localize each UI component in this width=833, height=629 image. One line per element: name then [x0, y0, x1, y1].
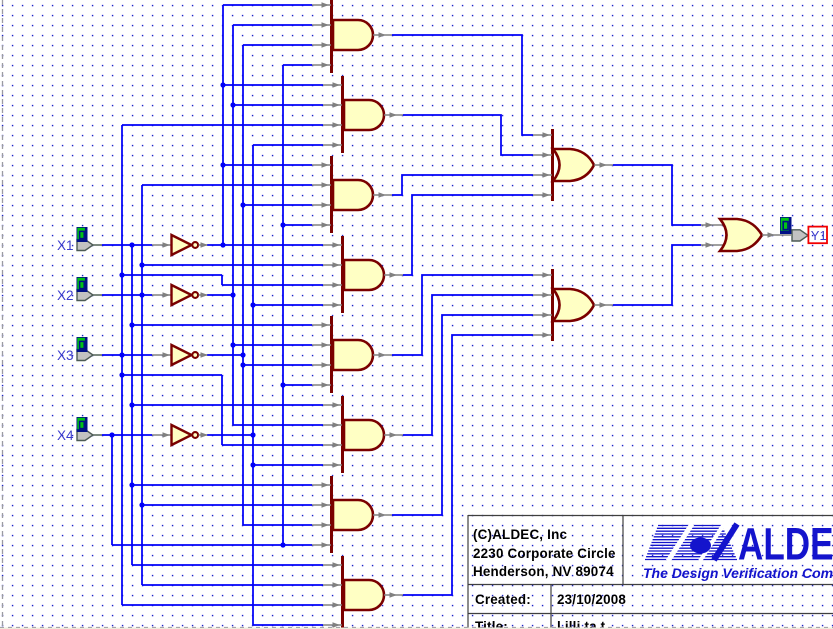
OR gate O1: [533, 129, 613, 201]
wire X2 port to inverter: [102, 294, 152, 296]
svg-text:2230 Corporate Circle: 2230 Corporate Circle: [473, 546, 616, 561]
junction (132,485): [129, 482, 134, 487]
wire NOT-X1 row to U4.in1: [207, 244, 323, 246]
wire U2 output to O1.in2: [403, 115, 533, 155]
wire X3 to U6.in3: [222, 444, 323, 446]
junction (253,465): [250, 462, 255, 467]
AND gate U7: [312, 476, 392, 553]
wire NOT-X1 to U2.in1: [223, 84, 323, 86]
wire NOT-X4 row: [207, 434, 253, 436]
wire U3 output to O1.in3: [392, 175, 533, 195]
junction (132,405): [129, 402, 134, 407]
wire X3 to U4.in3: [222, 284, 323, 286]
wire X1 to U5.in1: [132, 324, 312, 326]
wire O2 output to O3.in2: [613, 245, 701, 305]
AND gate U5: [312, 316, 392, 393]
wire net X1 column: [131, 245, 133, 565]
indicator X2 value 0: [77, 277, 88, 292]
title row: [475, 619, 606, 629]
wire X3 branch top: [122, 374, 222, 376]
wire U6 output to O2.in2: [403, 295, 533, 435]
AND gate U8: [323, 556, 403, 629]
wire net X3 jog segment: [221, 275, 223, 285]
AND gate U3: [312, 156, 392, 233]
indicator X1 value 0: [77, 227, 88, 242]
junction (142,295): [139, 292, 144, 297]
wire net X3 column: [121, 125, 123, 605]
junction (132,325): [129, 322, 134, 327]
wire X4 port to inverter: [102, 434, 152, 436]
OR gate O2: [533, 269, 613, 341]
junction (243,205): [240, 202, 245, 207]
junction (132,245): [129, 242, 134, 247]
AND gate U6: [323, 396, 403, 473]
junction (223,165): [220, 162, 225, 167]
wire NOT-X3 to U1.in3: [243, 44, 312, 46]
svg-text:The Design Verification Compan: The Design Verification Company: [643, 565, 833, 581]
svg-text:Y1: Y1: [811, 228, 827, 243]
wire NOT-X2 row: [207, 294, 233, 296]
wire NOT-X4 to U8.in4: [253, 624, 323, 626]
wire NOT-X2 to U2.in2: [233, 104, 323, 106]
input port X1: [57, 227, 102, 253]
wire NOT-X3 to U7.in3: [243, 524, 312, 526]
junction (283,225): [280, 222, 285, 227]
wire X3 to U8.in3: [122, 604, 323, 606]
wire X4 to U5.in4: [283, 384, 312, 386]
AND gate U4: [323, 236, 403, 313]
wire O1 output to O3.in1: [613, 165, 701, 225]
title block address text: [473, 527, 616, 579]
wire net NOT-X3 column: [242, 45, 244, 525]
wire NOT-X3 to U3.in3: [243, 204, 312, 206]
output port Y1: [792, 230, 808, 241]
wire NOT-X2 to U1.in2: [233, 24, 312, 26]
wire NOT-X4 to U6.in4: [253, 464, 323, 466]
created row: [475, 592, 626, 607]
inverter N3: [152, 345, 208, 365]
wire X4 to U7.in4: [112, 544, 312, 546]
wire NOT-X1 to U3.in1: [223, 164, 312, 166]
svg-text:Henderson, NV 89074: Henderson, NV 89074: [473, 564, 614, 579]
wire net X2 column: [141, 185, 143, 585]
input port X4: [57, 417, 102, 443]
inverter N4: [152, 425, 208, 445]
wire NOT-X1 to U1.in1: [223, 4, 312, 6]
wire X4 to U1.in4: [283, 64, 312, 66]
svg-text:23/10/2008: 23/10/2008: [557, 592, 626, 607]
page boundary dashed bottom: [0, 628, 833, 629]
wire X1 to U7.in1: [132, 484, 312, 486]
wire X2 to U3.in2: [142, 184, 312, 186]
wire NOT-X3 row: [207, 354, 243, 356]
junction (283,545): [280, 542, 285, 547]
junction (233,345): [230, 342, 235, 347]
junction (243,355): [240, 352, 245, 357]
AND gate U2: [323, 76, 403, 153]
indicator X3 value 0: [77, 337, 88, 352]
wire U4 output to O1.in4: [403, 195, 533, 275]
ALDEC logo: [643, 518, 833, 581]
wire net NOT-X1 column: [222, 5, 224, 245]
wire U8 output to O2.in4: [403, 335, 533, 595]
wire X2 to U8.in2: [142, 584, 323, 586]
svg-text:X1: X1: [57, 238, 74, 253]
wire U1 output to O1.in1: [392, 35, 533, 135]
wire net NOT-X4 column: [252, 145, 254, 625]
junction (223,245): [220, 242, 225, 247]
label Y1: [808, 227, 827, 244]
wire X1 to U6.in1: [132, 404, 323, 406]
indicator X4 value 0: [77, 417, 88, 432]
junction (243,365): [240, 362, 245, 367]
junction (233,295): [230, 292, 235, 297]
junction (122,275): [119, 272, 124, 277]
OR gate O3: [701, 219, 791, 251]
junction (253,435): [250, 432, 255, 437]
junction (142,265): [139, 262, 144, 267]
svg-text:X3: X3: [57, 348, 74, 363]
junction (233,105): [230, 102, 235, 107]
junction (223,85): [220, 82, 225, 87]
inverter N2: [152, 285, 208, 305]
wire U5 output to O2.in1: [392, 275, 533, 355]
page boundary dashed left: [2, 0, 4, 627]
wire X3 port to inverter: [102, 354, 152, 356]
junction (283,385): [280, 382, 285, 387]
wire X1 port to inverter: [102, 244, 152, 246]
wire net X4 column: [111, 435, 113, 545]
wire X4 to U3.in4: [283, 224, 312, 226]
svg-text:X4: X4: [57, 428, 74, 443]
svg-text:ALDEC: ALDEC: [738, 518, 833, 569]
junction (142,505): [139, 502, 144, 507]
wire X2 to U7.in2: [142, 504, 312, 506]
title block frame: [468, 515, 833, 629]
wire X3 jog top: [122, 274, 222, 276]
svg-text:(C)ALDEC, Inc: (C)ALDEC, Inc: [473, 527, 567, 542]
svg-text:Created:: Created:: [475, 592, 531, 607]
junction (253,305): [250, 302, 255, 307]
input port X3: [57, 337, 102, 363]
wire NOT-X2 to U6.in2: [233, 424, 323, 426]
wire NOT-X2 to U5.in2: [233, 344, 312, 346]
indicator Y1 value 0: [780, 217, 792, 234]
junction (122,355): [119, 352, 124, 357]
wire net NOT-X2 column: [232, 25, 234, 425]
input port X2: [57, 277, 102, 303]
wire NOT-X4 to U4.in4: [253, 304, 323, 306]
AND gate U1: [312, 0, 392, 73]
wire net X4 right column: [282, 65, 284, 545]
wire U7 output to O2.in3: [392, 315, 533, 515]
svg-text:X2: X2: [57, 288, 74, 303]
inverter N1: [152, 235, 208, 255]
wire X1 to U8.in1: [132, 564, 323, 566]
wire NOT-X4 to U2.in4: [253, 144, 323, 146]
junction (122,375): [119, 372, 124, 377]
wire NOT-X3 to U5.in3: [243, 364, 312, 366]
wire X3 to U2.in3: [122, 124, 323, 126]
junction (112,435): [109, 432, 114, 437]
wire X2 to U4.in2: [142, 264, 323, 266]
wire net X3 branch segment: [221, 375, 223, 445]
